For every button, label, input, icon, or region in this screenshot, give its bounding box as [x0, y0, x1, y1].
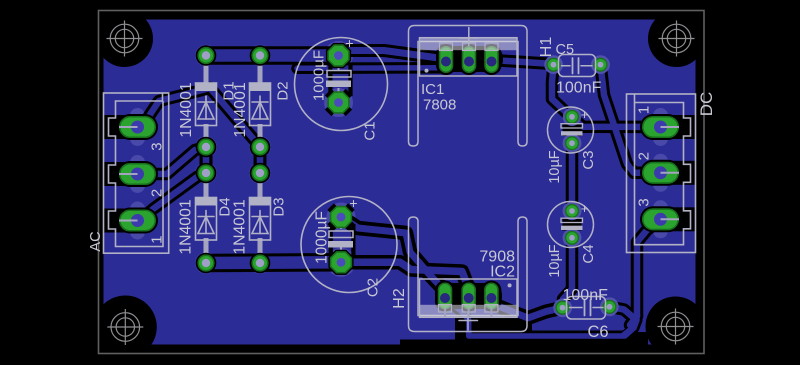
svg-text:100nF: 100nF — [563, 287, 609, 304]
pad D3 cathode — [250, 163, 271, 184]
pad X2 DC pin 3 — [640, 206, 681, 232]
svg-text:1N4001: 1N4001 — [178, 199, 195, 255]
pad C2 minus — [328, 250, 353, 275]
pad C3 plus — [563, 108, 581, 126]
svg-text:1000µF: 1000µF — [314, 211, 331, 264]
pad C6 pad 1 — [553, 299, 571, 317]
corner mounting holes — [99, 11, 705, 354]
AC connector silkscreen — [104, 93, 169, 253]
svg-text:3: 3 — [635, 198, 652, 206]
pad D2 anode — [250, 137, 271, 158]
wire C5 left to C3+ (isolation) — [552, 66, 572, 117]
wire AC leg A column D1 anode to D4 cathode (isolation) — [200, 147, 213, 173]
wire C5 right GND to DC pin2 — [601, 65, 661, 173]
capacitor C4 pad clearance gap — [563, 219, 582, 231]
IC2 silkscreen — [409, 217, 528, 332]
pad D3 anode — [250, 253, 271, 274]
wire stub under C1+ to IC1 pin2 — [297, 65, 440, 71]
wire DC pin3 down to C6 right junction — [630, 219, 661, 325]
capacitor C4 silk — [548, 202, 594, 248]
capacitor C2 silk — [301, 197, 397, 293]
pad C6 pad 2 — [600, 298, 618, 316]
svg-text:2: 2 — [148, 189, 165, 197]
capacitor C3 silk — [548, 107, 594, 153]
capacitor C6 silk — [567, 297, 606, 320]
svg-text:C3: C3 — [580, 150, 597, 169]
diode D4 body — [196, 198, 217, 241]
wire C1+ to IC1 pin1 input (isolation) — [339, 51, 447, 60]
svg-text:2: 2 — [635, 152, 652, 160]
wire AC pin2 to D1 anode — [144, 148, 206, 175]
svg-text:H1: H1 — [538, 37, 555, 58]
wire AC pin1 to D4 cathode — [144, 174, 206, 218]
DC connector silkscreen — [627, 94, 696, 253]
IC1 pad clearance blob — [437, 46, 503, 72]
diode D3 body — [250, 198, 271, 241]
wire IC2 pin1 along bottom edge (isolation) — [445, 298, 637, 336]
pad C5 pad 2 — [591, 55, 609, 73]
svg-text:+: + — [349, 195, 357, 211]
wire IC1 pin3 +8V to C5 left — [492, 61, 554, 65]
svg-text:C5: C5 — [556, 42, 575, 58]
diode D2 body — [250, 83, 271, 126]
wire GND C3- to C4+ — [569, 143, 576, 211]
wire C5 right GND to DC pin2 (isolation) — [601, 65, 661, 173]
wire AC leg B column D2 anode to D3 cathode — [257, 147, 264, 173]
svg-text:+: + — [581, 107, 589, 122]
IC2 pad clearance blob — [436, 283, 502, 309]
wire C2- to IC2 pin2 input — [341, 262, 469, 288]
wire DC pin3 down to C6 right junction (isolation) — [630, 219, 661, 325]
pad C4 plus — [563, 202, 581, 220]
svg-text:1000µF: 1000µF — [311, 50, 328, 101]
pad D4 cathode — [196, 163, 217, 184]
wire C2+ GND to IC2 pin1 — [341, 217, 444, 290]
svg-text:+: + — [345, 35, 353, 51]
pad IC1 pin 1 — [436, 44, 456, 75]
wire -raw rail D4/D3 anodes to C2- (isolation) — [206, 253, 341, 272]
pad IC1 pin 2 — [459, 44, 479, 75]
pad D2 cathode — [250, 45, 271, 66]
pad C5 pad 1 — [544, 55, 562, 73]
wire AC pin3 to D2 anode — [143, 88, 260, 147]
diode D1 body — [196, 83, 217, 126]
wire C6 right to DC pin3 riser — [610, 307, 638, 318]
pad C1 plus — [326, 43, 351, 68]
wire C3+ to DC pin1 — [572, 117, 661, 127]
wire C5 left to C3+ — [552, 66, 572, 117]
wire C3+ to DC pin1 (isolation) — [572, 117, 661, 127]
svg-text:1N4001: 1N4001 — [178, 82, 195, 138]
svg-text:D2: D2 — [275, 81, 292, 100]
IC1 silkscreen — [409, 26, 528, 147]
pad X2 DC pin 1 — [640, 114, 681, 140]
wire AC leg A column D1 anode to D4 cathode — [203, 147, 210, 173]
pad C3 minus — [563, 134, 581, 152]
edge clearance channels — [102, 115, 697, 233]
capacitor C1 silk — [295, 38, 388, 131]
wire AC pin3 to D2 anode (isolation) — [143, 88, 260, 147]
svg-text:1: 1 — [635, 106, 652, 114]
svg-text:1N4001: 1N4001 — [232, 82, 249, 138]
svg-text:+: + — [581, 201, 589, 216]
wire IC1 pin3 +8V to C5 left (isolation) — [492, 61, 554, 65]
svg-text:C2: C2 — [365, 278, 382, 297]
wire C4- to C6 left — [563, 238, 573, 308]
wire AC pin1 to D4 cathode (isolation) — [144, 174, 206, 218]
copper pour polygon — [104, 20, 696, 345]
svg-text:C1: C1 — [362, 121, 379, 140]
wire IC2 pin3 -8V to C6 left — [492, 298, 563, 318]
wire AC leg B column D2 anode to D3 cathode (isolation) — [254, 147, 267, 173]
wire C2- to IC2 pin2 input (isolation) — [341, 262, 469, 288]
wire -raw rail D4/D3 anodes to C2- — [206, 256, 341, 269]
capacitor C5 silk — [559, 55, 596, 77]
pad X2 DC pin 2 — [640, 160, 681, 186]
wire +raw rail D1/D2 cathodes to C1+ (isolation) — [206, 46, 339, 65]
svg-text:C6: C6 — [588, 323, 609, 341]
svg-text:7808: 7808 — [423, 97, 456, 114]
svg-text:100nF: 100nF — [556, 80, 602, 97]
wire stub under C1+ to IC1 pin2 (isolation) — [297, 62, 440, 74]
svg-text:IC1: IC1 — [421, 81, 444, 98]
solder-stop halos — [130, 41, 668, 317]
pad IC2 pin 3 — [481, 281, 501, 312]
wire IC2 pin1 along bottom edge — [445, 298, 637, 336]
pad X1 AC pin 3 — [117, 114, 158, 140]
pad X1 AC pin 2 — [117, 161, 158, 187]
capacitor C3 pad clearance gap — [563, 125, 582, 137]
connector pin silk leads — [119, 127, 679, 221]
wire C6 right to DC pin3 riser (isolation) — [610, 307, 638, 318]
capacitor C1 pour channel walls — [328, 63, 352, 96]
pad IC2 pin 1 — [435, 281, 455, 312]
svg-text:D3: D3 — [271, 197, 288, 216]
wire GND C3- to C4+ (isolation) — [566, 143, 579, 211]
pad IC1 pin 3 — [482, 44, 502, 75]
pad D4 anode — [196, 253, 217, 274]
wire C1+ to IC1 pin1 input — [339, 51, 447, 60]
svg-text:10µF: 10µF — [547, 150, 563, 183]
svg-text:10µF: 10µF — [547, 244, 563, 277]
component silk leads — [206, 56, 572, 263]
svg-text:1N4001: 1N4001 — [232, 199, 249, 255]
pad C4 minus — [563, 229, 581, 247]
svg-text:DC: DC — [697, 92, 716, 117]
pad X1 AC pin 1 — [117, 208, 158, 234]
pad D1 cathode — [196, 45, 217, 66]
svg-text:1: 1 — [148, 236, 165, 244]
pad C1 minus thermal to pour — [327, 91, 351, 115]
pad IC2 pin 2 — [459, 281, 479, 312]
svg-text:AC: AC — [88, 231, 104, 251]
wire C4- to C6 left (isolation) — [563, 238, 573, 308]
pad C2 plus thermal to pour — [329, 205, 353, 229]
capacitor C2 pour channel walls — [329, 224, 356, 256]
svg-text:H2: H2 — [391, 288, 408, 309]
svg-text:C4: C4 — [580, 244, 597, 263]
pad D1 anode — [196, 137, 217, 158]
wire AC pin2 to D1 anode (isolation) — [144, 148, 206, 175]
svg-text:3: 3 — [148, 142, 165, 150]
bottom band wire core — [622, 319, 637, 336]
wire +raw rail D1/D2 cathodes to C1+ — [206, 49, 339, 62]
svg-text:IC2: IC2 — [490, 264, 515, 281]
wire IC2 pin3 -8V to C6 left (isolation) — [492, 298, 563, 318]
wire C2+ GND to IC2 pin1 (isolation) — [341, 217, 444, 290]
